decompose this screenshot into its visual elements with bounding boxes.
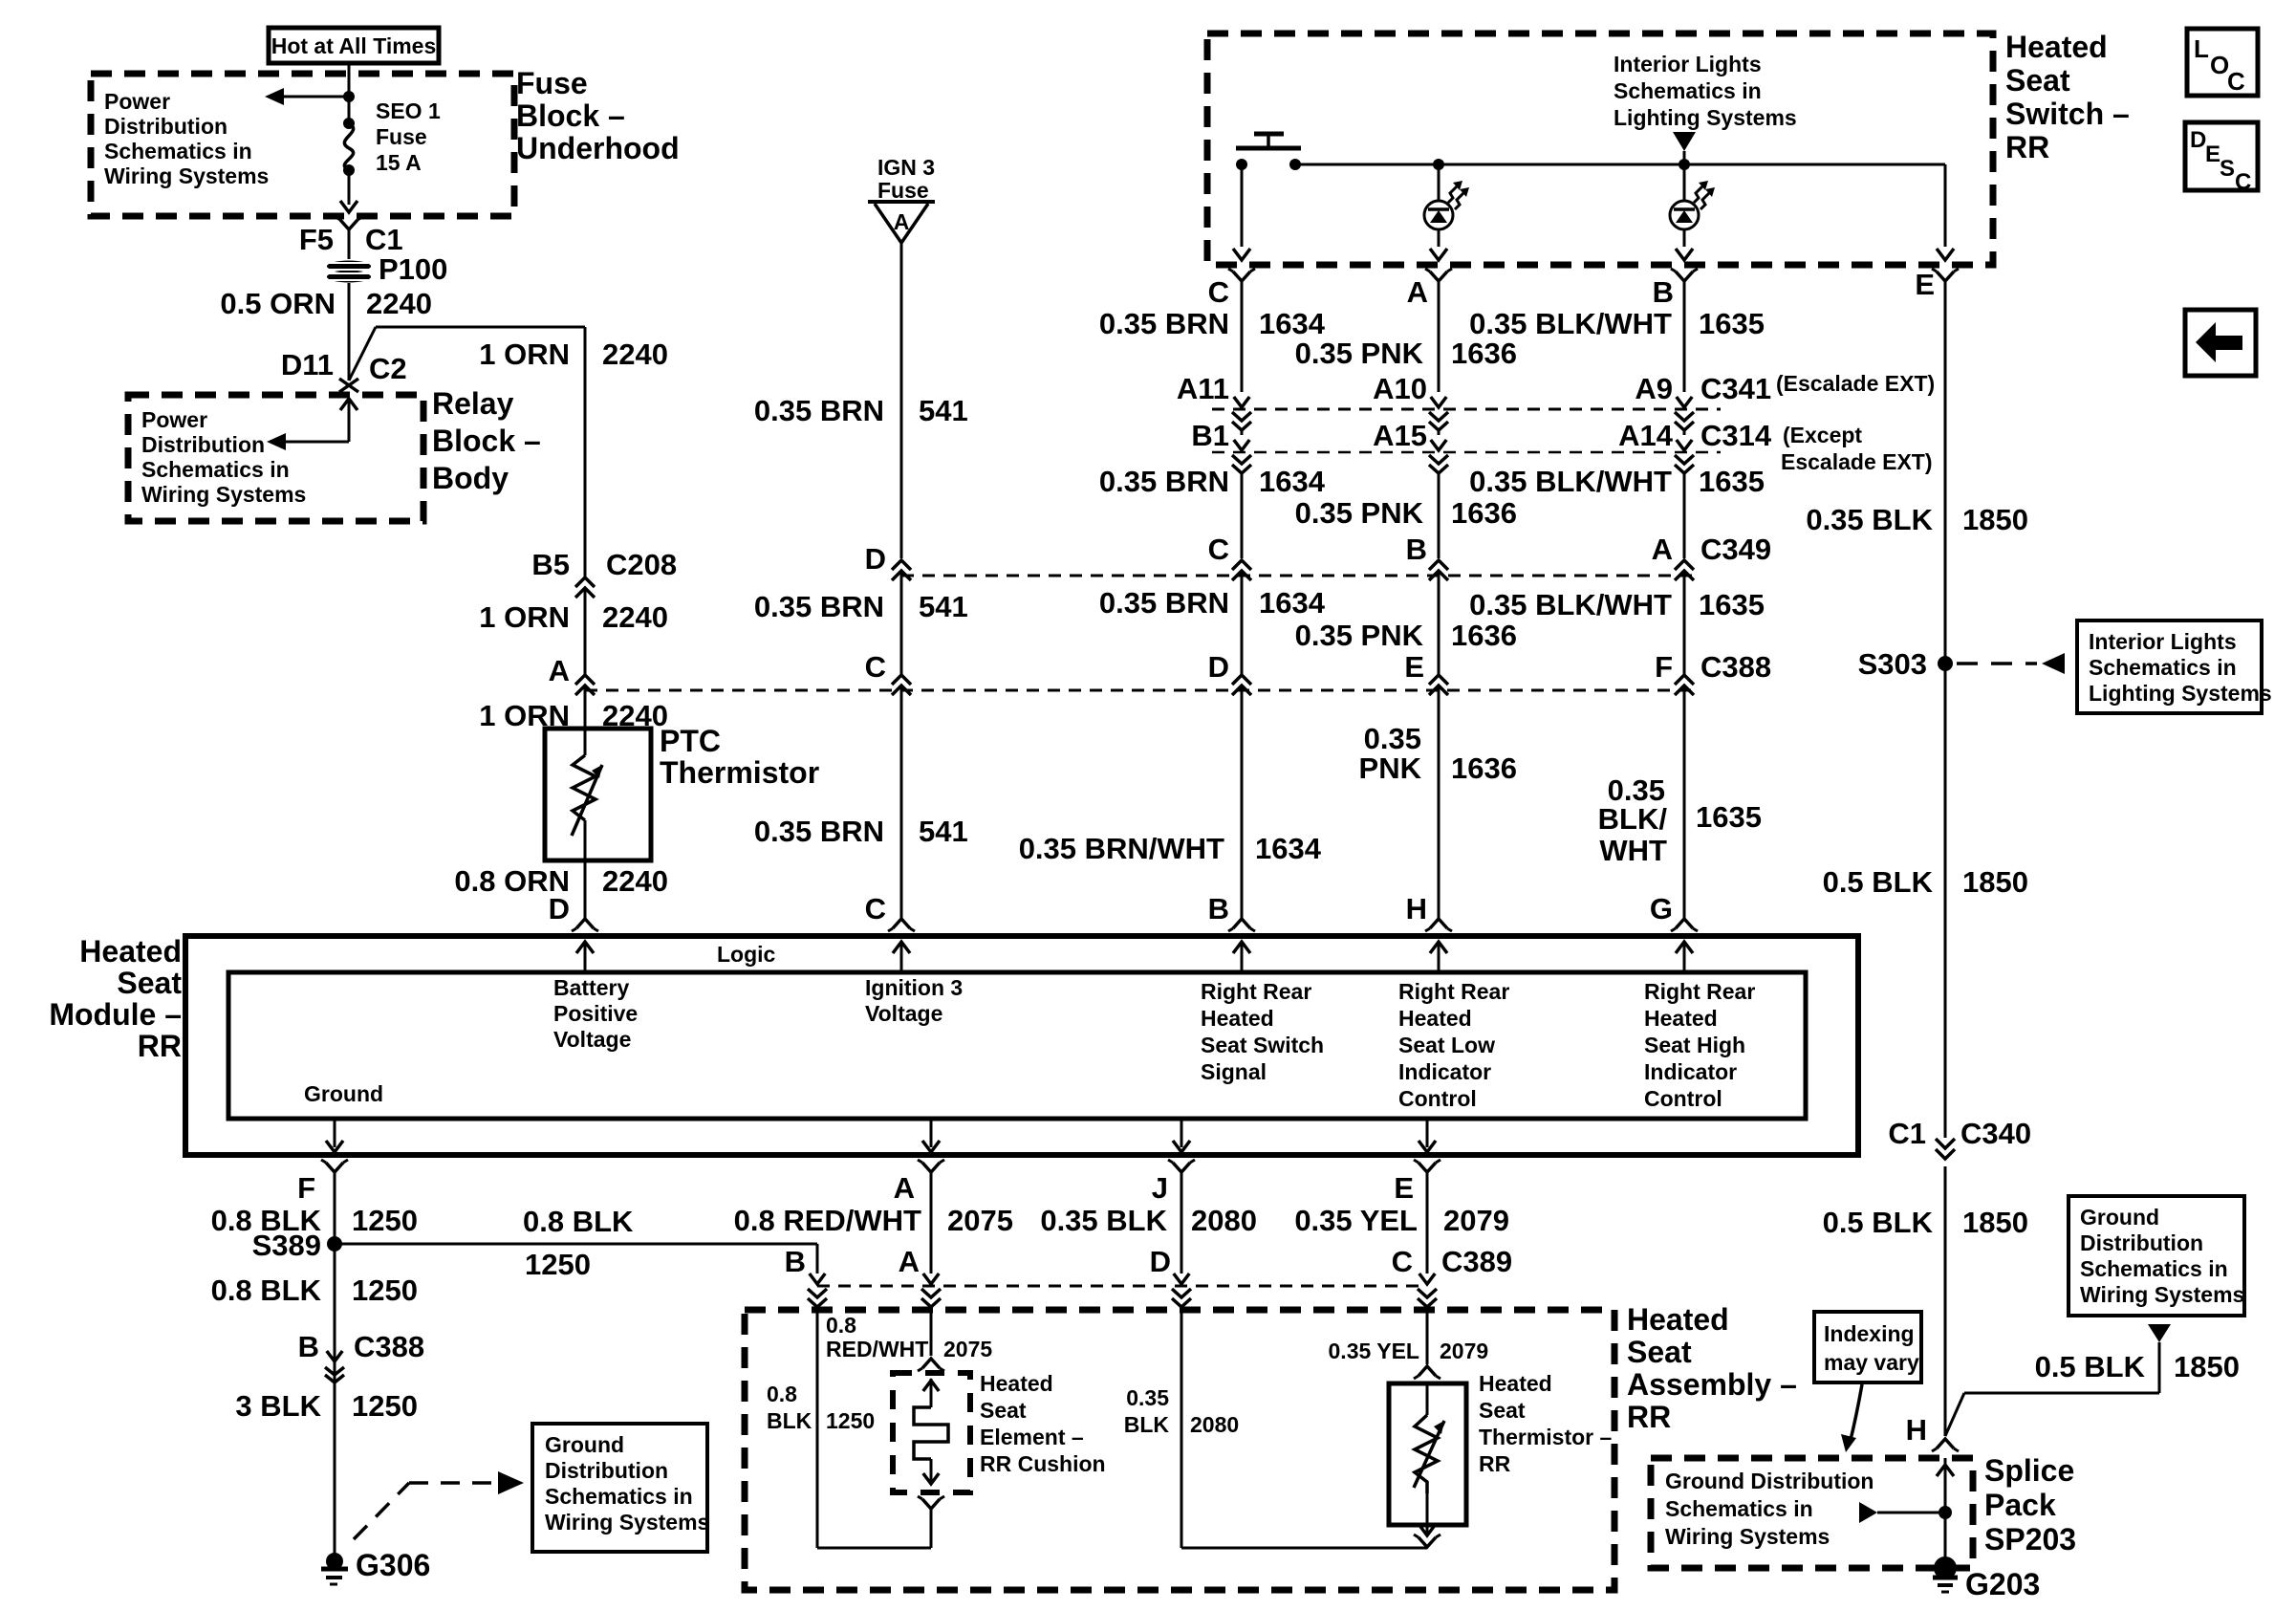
svg-text:G306: G306 xyxy=(356,1548,430,1582)
svg-text:Heated: Heated xyxy=(1398,1006,1472,1031)
svg-text:Lighting Systems: Lighting Systems xyxy=(2089,681,2272,706)
svg-text:Heated: Heated xyxy=(980,1371,1053,1396)
svg-text:Seat: Seat xyxy=(2005,63,2070,98)
svg-text:P100: P100 xyxy=(379,252,447,286)
svg-text:1250: 1250 xyxy=(352,1204,418,1237)
svg-text:1634: 1634 xyxy=(1259,586,1326,620)
svg-text:D: D xyxy=(865,542,886,576)
svg-text:F: F xyxy=(297,1171,315,1205)
svg-text:1250: 1250 xyxy=(525,1248,591,1281)
svg-text:A9: A9 xyxy=(1635,372,1673,405)
svg-text:BLK: BLK xyxy=(1124,1412,1170,1437)
svg-text:Battery: Battery xyxy=(553,975,629,1000)
svg-text:1636: 1636 xyxy=(1451,496,1517,530)
svg-text:Control: Control xyxy=(1398,1086,1477,1111)
svg-text:Escalade EXT): Escalade EXT) xyxy=(1781,449,1933,474)
svg-text:541: 541 xyxy=(919,815,968,848)
svg-text:F5: F5 xyxy=(299,223,334,256)
svg-text:Thermistor: Thermistor xyxy=(660,755,819,790)
svg-text:Indexing: Indexing xyxy=(1824,1321,1915,1346)
svg-text:1850: 1850 xyxy=(2174,1350,2240,1383)
svg-text:Ground: Ground xyxy=(304,1081,383,1106)
svg-text:Underhood: Underhood xyxy=(516,131,680,165)
svg-text:0.35 YEL: 0.35 YEL xyxy=(1329,1339,1419,1363)
svg-text:541: 541 xyxy=(919,394,968,427)
svg-text:RR: RR xyxy=(1479,1451,1511,1476)
svg-text:1634: 1634 xyxy=(1259,307,1326,340)
svg-text:C: C xyxy=(2235,169,2251,195)
svg-text:WHT: WHT xyxy=(1599,834,1667,867)
svg-text:Ground: Ground xyxy=(2080,1205,2159,1230)
svg-text:2240: 2240 xyxy=(602,337,668,371)
svg-text:A: A xyxy=(894,209,910,234)
svg-text:Wiring Systems: Wiring Systems xyxy=(141,482,306,507)
svg-text:1636: 1636 xyxy=(1451,619,1517,652)
svg-text:Signal: Signal xyxy=(1201,1059,1267,1084)
svg-text:B: B xyxy=(1208,892,1229,925)
svg-text:B: B xyxy=(1406,533,1427,566)
svg-text:Heated: Heated xyxy=(1644,1006,1718,1031)
svg-text:C: C xyxy=(1208,275,1229,309)
svg-text:PNK: PNK xyxy=(1359,751,1422,785)
svg-text:Power: Power xyxy=(104,89,170,114)
svg-text:2080: 2080 xyxy=(1190,1412,1239,1437)
svg-text:15 A: 15 A xyxy=(376,150,422,175)
svg-text:Ignition 3: Ignition 3 xyxy=(865,975,963,1000)
svg-text:Block –: Block – xyxy=(516,98,625,133)
svg-text:1 ORN: 1 ORN xyxy=(479,600,570,634)
svg-text:0.35 BRN: 0.35 BRN xyxy=(754,590,884,623)
svg-text:Power: Power xyxy=(141,407,207,432)
svg-text:1250: 1250 xyxy=(352,1274,418,1307)
svg-text:Pack: Pack xyxy=(1984,1488,2056,1522)
svg-text:A15: A15 xyxy=(1373,419,1427,452)
svg-text:0.5 BLK: 0.5 BLK xyxy=(2035,1350,2146,1383)
svg-text:Distribution: Distribution xyxy=(2080,1230,2203,1255)
svg-text:0.5 BLK: 0.5 BLK xyxy=(1823,865,1934,899)
svg-text:Seat: Seat xyxy=(980,1398,1027,1423)
svg-text:Wiring Systems: Wiring Systems xyxy=(545,1510,709,1535)
svg-text:Wiring Systems: Wiring Systems xyxy=(1665,1524,1830,1549)
svg-text:Positive: Positive xyxy=(553,1001,638,1026)
svg-text:0.35 BLK: 0.35 BLK xyxy=(1806,503,1933,536)
svg-text:2079: 2079 xyxy=(1440,1339,1488,1363)
svg-text:Schematics in: Schematics in xyxy=(2080,1256,2228,1281)
svg-text:Voltage: Voltage xyxy=(865,1001,942,1026)
svg-text:Seat: Seat xyxy=(117,966,182,1000)
svg-text:RED/WHT: RED/WHT xyxy=(826,1337,928,1361)
svg-text:Distribution: Distribution xyxy=(545,1458,668,1483)
svg-text:1250: 1250 xyxy=(826,1408,875,1433)
svg-text:(Except: (Except xyxy=(1783,423,1862,447)
svg-text:Schematics in: Schematics in xyxy=(545,1484,693,1509)
svg-text:Distribution: Distribution xyxy=(104,114,227,139)
svg-text:1850: 1850 xyxy=(1962,1206,2028,1239)
svg-text:3 BLK: 3 BLK xyxy=(235,1389,321,1423)
svg-text:1634: 1634 xyxy=(1255,832,1322,865)
svg-text:Fuse: Fuse xyxy=(877,178,929,203)
svg-text:0.35 BLK: 0.35 BLK xyxy=(1040,1204,1167,1237)
svg-text:Heated: Heated xyxy=(1627,1302,1729,1337)
svg-text:2240: 2240 xyxy=(602,864,668,898)
svg-text:A14: A14 xyxy=(1618,419,1674,452)
svg-text:0.35: 0.35 xyxy=(1364,722,1421,755)
svg-text:1850: 1850 xyxy=(1962,503,2028,536)
svg-text:0.35 BRN: 0.35 BRN xyxy=(754,815,884,848)
svg-text:Schematics in: Schematics in xyxy=(104,139,252,163)
svg-text:1636: 1636 xyxy=(1451,751,1517,785)
svg-text:A: A xyxy=(899,1245,920,1278)
svg-text:1635: 1635 xyxy=(1696,800,1762,834)
svg-text:0.35 BRN: 0.35 BRN xyxy=(754,394,884,427)
svg-text:G203: G203 xyxy=(1965,1567,2040,1601)
svg-text:C388: C388 xyxy=(354,1330,424,1363)
svg-text:C: C xyxy=(1392,1245,1413,1278)
svg-text:C208: C208 xyxy=(606,548,677,581)
svg-text:Body: Body xyxy=(432,461,509,495)
svg-text:0.35 BRN/WHT: 0.35 BRN/WHT xyxy=(1019,832,1224,865)
svg-text:0.35: 0.35 xyxy=(1126,1385,1169,1410)
svg-text:Ground Distribution: Ground Distribution xyxy=(1665,1469,1874,1493)
svg-text:D: D xyxy=(2190,127,2206,153)
svg-text:G: G xyxy=(1650,892,1673,925)
svg-text:Schematics in: Schematics in xyxy=(141,457,290,482)
svg-text:H: H xyxy=(1906,1413,1927,1447)
svg-text:Element –: Element – xyxy=(980,1425,1084,1449)
svg-text:0.8: 0.8 xyxy=(767,1382,797,1406)
svg-text:2080: 2080 xyxy=(1191,1204,1257,1237)
svg-text:0.8: 0.8 xyxy=(826,1313,856,1338)
svg-text:Seat: Seat xyxy=(1627,1335,1692,1369)
svg-text:C314: C314 xyxy=(1700,419,1772,452)
svg-text:0.8 RED/WHT: 0.8 RED/WHT xyxy=(734,1204,921,1237)
svg-text:0.35 PNK: 0.35 PNK xyxy=(1295,337,1424,370)
svg-text:Ground: Ground xyxy=(545,1432,624,1457)
svg-text:C341: C341 xyxy=(1700,372,1771,405)
svg-text:Seat: Seat xyxy=(1479,1398,1526,1423)
svg-text:1250: 1250 xyxy=(352,1389,418,1423)
svg-text:C: C xyxy=(865,650,886,684)
svg-text:Interior Lights: Interior Lights xyxy=(1614,52,1762,76)
svg-text:D11: D11 xyxy=(281,348,334,381)
svg-text:0.35 PNK: 0.35 PNK xyxy=(1295,619,1424,652)
svg-text:Schematics in: Schematics in xyxy=(2089,655,2237,680)
svg-text:Module –: Module – xyxy=(49,997,182,1032)
svg-text:(Escalade EXT): (Escalade EXT) xyxy=(1776,371,1935,396)
svg-text:Relay: Relay xyxy=(432,386,514,421)
svg-text:1636: 1636 xyxy=(1451,337,1517,370)
svg-text:J: J xyxy=(1152,1171,1168,1205)
svg-text:Schematics in: Schematics in xyxy=(1665,1496,1813,1521)
svg-text:may vary: may vary xyxy=(1824,1350,1919,1375)
svg-text:2075: 2075 xyxy=(947,1204,1013,1237)
svg-text:0.35 BLK/WHT: 0.35 BLK/WHT xyxy=(1469,307,1672,340)
svg-text:RR Cushion: RR Cushion xyxy=(980,1451,1106,1476)
svg-text:Lighting Systems: Lighting Systems xyxy=(1614,105,1797,130)
svg-text:Fuse: Fuse xyxy=(516,66,588,100)
svg-text:H: H xyxy=(1406,892,1427,925)
svg-text:0.35 BRN: 0.35 BRN xyxy=(1099,465,1229,498)
svg-text:Fuse: Fuse xyxy=(376,124,427,149)
svg-text:A: A xyxy=(549,654,570,687)
svg-text:0.35 BLK/WHT: 0.35 BLK/WHT xyxy=(1469,588,1672,621)
svg-text:PTC: PTC xyxy=(660,724,721,758)
svg-text:C: C xyxy=(1208,533,1229,566)
svg-text:0.35 BRN: 0.35 BRN xyxy=(1099,586,1229,620)
svg-text:1635: 1635 xyxy=(1699,465,1765,498)
svg-text:C389: C389 xyxy=(1441,1245,1512,1278)
svg-text:Logic: Logic xyxy=(717,942,776,967)
svg-text:E: E xyxy=(1394,1171,1414,1205)
svg-text:B5: B5 xyxy=(531,548,570,581)
svg-text:BLK/: BLK/ xyxy=(1598,802,1668,836)
svg-text:A: A xyxy=(894,1171,915,1205)
svg-text:Heated: Heated xyxy=(1479,1371,1552,1396)
svg-text:Distribution: Distribution xyxy=(141,432,265,457)
svg-text:E: E xyxy=(2205,142,2220,167)
svg-text:0.5 ORN: 0.5 ORN xyxy=(220,287,336,320)
svg-text:C1: C1 xyxy=(1888,1117,1926,1150)
svg-text:SP203: SP203 xyxy=(1984,1522,2076,1557)
svg-text:2075: 2075 xyxy=(943,1337,992,1361)
svg-text:C: C xyxy=(865,892,886,925)
svg-text:Right Rear: Right Rear xyxy=(1398,979,1509,1004)
svg-text:541: 541 xyxy=(919,590,968,623)
svg-text:BLK: BLK xyxy=(767,1408,812,1433)
svg-text:Right Rear: Right Rear xyxy=(1201,979,1311,1004)
svg-text:1 ORN: 1 ORN xyxy=(479,337,570,371)
svg-text:RR: RR xyxy=(2005,130,2049,164)
svg-text:1635: 1635 xyxy=(1699,588,1765,621)
svg-text:0.5 BLK: 0.5 BLK xyxy=(1823,1206,1934,1239)
svg-text:E: E xyxy=(1404,650,1424,684)
svg-text:Switch –: Switch – xyxy=(2005,97,2130,131)
svg-text:Seat High: Seat High xyxy=(1644,1033,1745,1057)
svg-text:IGN 3: IGN 3 xyxy=(877,155,935,180)
svg-text:Block –: Block – xyxy=(432,424,541,458)
svg-text:C1: C1 xyxy=(365,223,403,256)
svg-text:Heated: Heated xyxy=(79,934,182,969)
svg-text:D: D xyxy=(549,892,570,925)
svg-text:1850: 1850 xyxy=(1962,865,2028,899)
svg-text:RR: RR xyxy=(138,1029,182,1063)
svg-text:2079: 2079 xyxy=(1443,1204,1509,1237)
svg-text:0.8 BLK: 0.8 BLK xyxy=(211,1274,322,1307)
svg-text:0.35 BRN: 0.35 BRN xyxy=(1099,307,1229,340)
svg-text:A11: A11 xyxy=(1177,372,1229,405)
svg-text:Interior Lights: Interior Lights xyxy=(2089,629,2237,654)
svg-text:A10: A10 xyxy=(1373,372,1427,405)
svg-text:Indicator: Indicator xyxy=(1644,1059,1737,1084)
svg-text:Schematics in: Schematics in xyxy=(1614,78,1762,103)
svg-text:Right Rear: Right Rear xyxy=(1644,979,1755,1004)
svg-text:A: A xyxy=(1652,533,1673,566)
svg-text:Wiring Systems: Wiring Systems xyxy=(2080,1282,2244,1307)
svg-text:0.35 PNK: 0.35 PNK xyxy=(1295,496,1424,530)
svg-text:RR: RR xyxy=(1627,1400,1671,1434)
svg-text:Splice: Splice xyxy=(1984,1453,2074,1488)
svg-text:Assembly –: Assembly – xyxy=(1627,1367,1797,1402)
svg-text:Seat Low: Seat Low xyxy=(1398,1033,1495,1057)
svg-text:0.35 YEL: 0.35 YEL xyxy=(1294,1204,1418,1237)
svg-text:Wiring Systems: Wiring Systems xyxy=(104,163,269,188)
svg-text:S303: S303 xyxy=(1858,647,1927,681)
svg-text:B: B xyxy=(785,1245,806,1278)
svg-text:D: D xyxy=(1150,1245,1171,1278)
svg-text:Heated: Heated xyxy=(1201,1006,1274,1031)
svg-text:L: L xyxy=(2194,34,2209,63)
svg-text:Hot at All Times: Hot at All Times xyxy=(271,33,437,58)
svg-text:B: B xyxy=(298,1330,319,1363)
svg-text:0.8 BLK: 0.8 BLK xyxy=(523,1205,634,1238)
svg-text:B1: B1 xyxy=(1191,419,1229,452)
svg-text:E: E xyxy=(1915,268,1935,301)
svg-text:2240: 2240 xyxy=(366,287,432,320)
svg-text:S: S xyxy=(2220,156,2235,182)
svg-text:D: D xyxy=(1208,650,1229,684)
svg-text:C349: C349 xyxy=(1700,533,1771,566)
svg-text:A: A xyxy=(1407,275,1428,309)
svg-text:F: F xyxy=(1655,650,1673,684)
svg-text:C: C xyxy=(2227,67,2245,96)
svg-text:2240: 2240 xyxy=(602,600,668,634)
svg-text:S389: S389 xyxy=(252,1229,321,1262)
svg-text:1635: 1635 xyxy=(1699,307,1765,340)
svg-text:Indicator: Indicator xyxy=(1398,1059,1491,1084)
svg-text:SEO 1: SEO 1 xyxy=(376,98,441,123)
svg-text:C2: C2 xyxy=(369,352,407,385)
svg-text:Control: Control xyxy=(1644,1086,1722,1111)
svg-text:B: B xyxy=(1653,275,1674,309)
svg-text:0.35 BLK/WHT: 0.35 BLK/WHT xyxy=(1469,465,1672,498)
svg-text:C340: C340 xyxy=(1960,1117,2031,1150)
svg-text:Heated: Heated xyxy=(2005,30,2108,64)
svg-text:Seat Switch: Seat Switch xyxy=(1201,1033,1324,1057)
svg-text:C388: C388 xyxy=(1700,650,1771,684)
svg-text:Voltage: Voltage xyxy=(553,1027,631,1052)
svg-text:Thermistor –: Thermistor – xyxy=(1479,1425,1613,1449)
svg-text:1634: 1634 xyxy=(1259,465,1326,498)
